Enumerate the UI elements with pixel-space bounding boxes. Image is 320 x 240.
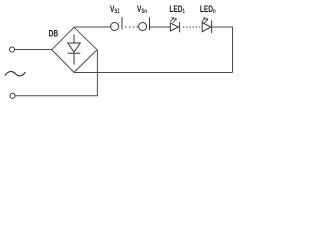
wire T1 to bridge left corner (15, 49, 52, 51)
diode inside bridge: anode lead (73, 35, 75, 44)
LEDn cathode bar (211, 20, 213, 33)
LED1 triangle (170, 23, 178, 31)
diode inside bridge: cathode bar (68, 52, 81, 54)
wire bridge top corner to Vs1 (74, 26, 111, 28)
return wire to bridge bottom corner (74, 72, 233, 74)
LEDn emission arrows (202, 18, 208, 23)
svg-text:LED1: LED1 (169, 4, 185, 15)
voltage source Vs1 circle (111, 23, 119, 31)
terminal T2 (bottom AC input circle) (10, 93, 15, 98)
svg-text:DB: DB (49, 29, 59, 39)
terminal T1 (top AC input circle) (10, 47, 15, 52)
wire LEDn to right edge and down (212, 27, 232, 73)
LEDn triangle (202, 23, 211, 32)
diode inside bridge: triangle (68, 43, 81, 52)
svg-text:LEDn: LEDn (200, 4, 216, 15)
dotted wire Vs1 to Vsn (125, 26, 138, 28)
dotted wire LED1 to LEDn (183, 26, 201, 28)
voltage source Vsn circle (139, 23, 147, 31)
LED1 emission arrows (170, 18, 176, 24)
wire T2 bottom wire to bridge right corner riser (15, 50, 97, 96)
LED1 cathode bar (179, 22, 181, 32)
wire Vsn to LED1 (150, 26, 171, 28)
svg-text:VS1: VS1 (110, 4, 120, 15)
AC source symbol ~ (5, 72, 25, 76)
Vs1 bar (121, 17, 123, 30)
svg-text:VSn: VSn (137, 4, 147, 15)
diode bridge DB diamond (52, 27, 97, 72)
Vsn bar (149, 18, 151, 31)
diode inside bridge: cathode lead (73, 53, 75, 64)
